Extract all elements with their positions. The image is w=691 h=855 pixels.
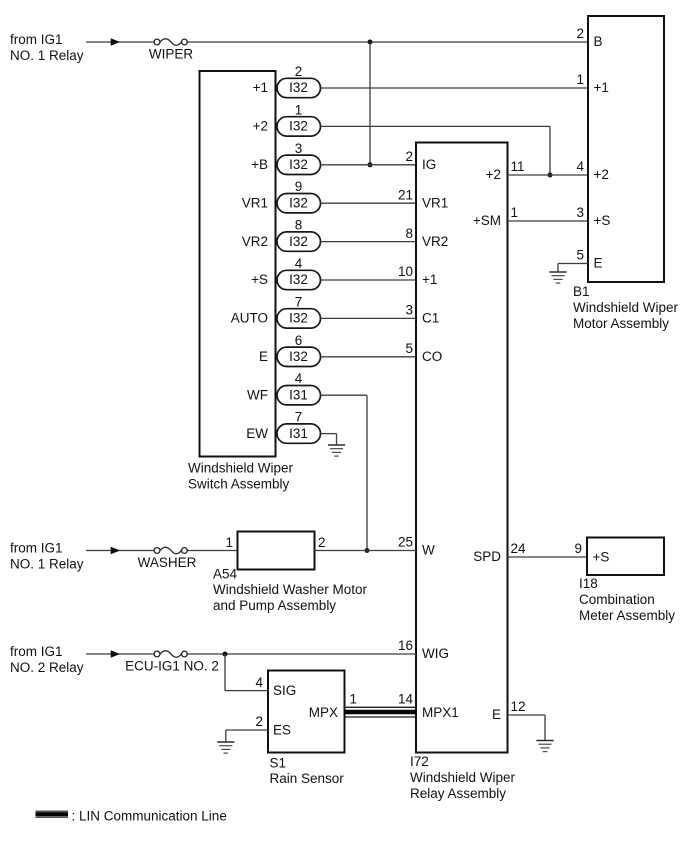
- wire E of B1 to ground: [558, 263, 588, 265]
- svg-text:2: 2: [255, 714, 263, 729]
- svg-text:CO: CO: [422, 349, 442, 364]
- svg-text:B: B: [594, 34, 603, 49]
- wire +S to +1: [321, 279, 417, 281]
- svg-text:Windshield Washer Motor: Windshield Washer Motor: [213, 582, 368, 597]
- svg-text:3: 3: [405, 303, 413, 318]
- svg-text:Windshield Wiper: Windshield Wiper: [573, 300, 679, 315]
- svg-text:Meter Assembly: Meter Assembly: [579, 608, 675, 623]
- fuse WIPER: [154, 39, 160, 45]
- fuse WASHER: [154, 548, 160, 554]
- svg-text:4: 4: [255, 675, 263, 690]
- svg-text:IG: IG: [422, 157, 436, 172]
- ground (I72 E): [536, 740, 553, 742]
- wire EW to ground: [321, 433, 337, 435]
- wire VR2: [321, 241, 417, 243]
- motor box: A54 Windshield Washer Motor and Pump Assembly: [238, 532, 315, 570]
- svg-text:WIPER: WIPER: [149, 47, 194, 62]
- svg-text:A54: A54: [213, 567, 238, 582]
- arrow feed 1: [111, 38, 120, 46]
- svg-text:Windshield Wiper: Windshield Wiper: [410, 770, 516, 785]
- svg-text:8: 8: [295, 218, 303, 233]
- svg-text:I32: I32: [289, 349, 308, 364]
- wire +2 net (switch +2 to +2 junction): [321, 125, 551, 127]
- svg-text:Rain Sensor: Rain Sensor: [270, 771, 345, 786]
- svg-text:MPX1: MPX1: [422, 705, 459, 720]
- arrow feed 3: [111, 650, 120, 658]
- svg-text:VR2: VR2: [422, 234, 448, 249]
- svg-text:ES: ES: [273, 723, 291, 738]
- wire: from IG1 NO.1 Relay to washer motor (W net): [86, 550, 154, 552]
- svg-text:7: 7: [295, 294, 303, 309]
- wire junction down to SIG: [224, 654, 226, 691]
- svg-text:24: 24: [511, 541, 527, 556]
- wire A54 pin2 to I72 W pin25: [315, 550, 417, 552]
- svg-text:+SM: +SM: [473, 213, 501, 228]
- svg-text:+S: +S: [251, 272, 268, 287]
- wire: from IG1 NO.2 Relay to WIG: [86, 653, 154, 655]
- motor box: B1 Windshield Wiper Motor Assembly: [588, 16, 664, 282]
- ECU box: I72 Windshield Wiper Relay Assembly: [416, 143, 508, 753]
- wire AUTO to C1: [321, 317, 417, 319]
- svg-text:NO. 2 Relay: NO. 2 Relay: [10, 660, 84, 675]
- svg-text:4: 4: [295, 371, 303, 386]
- svg-text:1: 1: [225, 535, 233, 550]
- ground (EW): [328, 444, 345, 446]
- svg-text:+1: +1: [422, 272, 437, 287]
- fuse ECU-IG1 NO.2: [154, 651, 160, 657]
- svg-text:2: 2: [405, 149, 413, 164]
- node: junction at +B wire: [368, 162, 373, 167]
- svg-text:2: 2: [295, 64, 303, 79]
- wire: fusible link from IG1 NO.1 Relay to net B: [86, 41, 154, 43]
- svg-text:Motor Assembly: Motor Assembly: [573, 316, 669, 331]
- wire +2 (I72 pin11 to motor pin4): [508, 174, 589, 176]
- svg-text:+2: +2: [253, 119, 268, 134]
- svg-text:NO. 1 Relay: NO. 1 Relay: [10, 48, 84, 63]
- svg-text:I32: I32: [289, 80, 308, 95]
- node junction on WIG net: [223, 652, 228, 657]
- svg-text:: LIN Communication Line: : LIN Communication Line: [72, 809, 227, 824]
- ground (B1 E): [549, 271, 566, 273]
- svg-text:WIG: WIG: [422, 646, 449, 661]
- svg-text:VR1: VR1: [242, 195, 268, 210]
- wire +B to IG: [321, 164, 417, 166]
- wire +SM to +S: [508, 220, 589, 222]
- svg-text:SIG: SIG: [273, 683, 296, 698]
- ground (S1 ES): [217, 741, 234, 743]
- svg-text:Switch Assembly: Switch Assembly: [188, 476, 290, 491]
- svg-text:NO. 1 Relay: NO. 1 Relay: [10, 557, 84, 572]
- wire +1 net (switch +1 to motor +1): [321, 87, 589, 89]
- svg-text:9: 9: [574, 541, 582, 556]
- svg-text:I32: I32: [289, 195, 308, 210]
- svg-text:+1: +1: [253, 80, 268, 95]
- svg-text:I32: I32: [289, 272, 308, 287]
- svg-text:S1: S1: [270, 756, 287, 771]
- svg-text:and Pump Assembly: and Pump Assembly: [213, 598, 336, 613]
- wire ES to ground: [226, 729, 268, 731]
- node junction on W net: [365, 548, 370, 553]
- svg-text:I32: I32: [289, 311, 308, 326]
- meter box: I18 Combination Meter Assembly: [587, 538, 664, 576]
- svg-text:from IG1: from IG1: [10, 32, 63, 47]
- wire VR1: [321, 202, 417, 204]
- connector box: Windshield Wiper Switch Assembly: [200, 71, 276, 457]
- wire E of I72 to ground: [508, 714, 546, 716]
- svg-text:16: 16: [398, 638, 413, 653]
- svg-text:I31: I31: [289, 387, 308, 402]
- svg-text:4: 4: [295, 256, 303, 271]
- svg-text:1: 1: [295, 102, 303, 117]
- svg-text:AUTO: AUTO: [231, 311, 268, 326]
- svg-text:2: 2: [576, 26, 584, 41]
- svg-text:9: 9: [295, 179, 303, 194]
- arrow feed 2: [111, 547, 120, 555]
- svg-text:+B: +B: [251, 157, 268, 172]
- wire SPD to combination meter: [508, 556, 588, 558]
- wire WF down to W net: [321, 394, 368, 396]
- svg-text:4: 4: [576, 159, 584, 174]
- svg-text:3: 3: [295, 141, 303, 156]
- svg-text:C1: C1: [422, 311, 439, 326]
- svg-text:Combination: Combination: [579, 592, 655, 607]
- sensor box: S1 Rain Sensor: [268, 671, 345, 753]
- svg-text:I31: I31: [289, 426, 308, 441]
- svg-text:WF: WF: [247, 387, 268, 402]
- svg-text:+S: +S: [593, 550, 610, 565]
- svg-text:7: 7: [295, 410, 303, 425]
- svg-text:1: 1: [511, 205, 519, 220]
- svg-text:11: 11: [511, 159, 525, 174]
- svg-text:2: 2: [318, 535, 326, 550]
- svg-text:5: 5: [405, 341, 413, 356]
- svg-text:+2: +2: [486, 167, 501, 182]
- wire: vertical from net B to +B/IG wire: [369, 42, 371, 165]
- svg-text:SPD: SPD: [473, 549, 501, 564]
- svg-text:12: 12: [511, 699, 526, 714]
- svg-text:W: W: [422, 543, 435, 558]
- LIN communication line MPX to MPX1: [345, 706, 417, 708]
- svg-text:E: E: [594, 256, 603, 271]
- svg-text:Relay Assembly: Relay Assembly: [410, 786, 506, 801]
- svg-text:MPX: MPX: [309, 705, 338, 720]
- svg-text:25: 25: [398, 535, 413, 550]
- svg-text:from IG1: from IG1: [10, 644, 63, 659]
- svg-text:3: 3: [576, 205, 584, 220]
- svg-text:I32: I32: [289, 234, 308, 249]
- svg-text:14: 14: [398, 692, 414, 707]
- svg-text:8: 8: [405, 226, 413, 241]
- svg-text:+1: +1: [594, 80, 609, 95]
- svg-text:B1: B1: [573, 284, 590, 299]
- svg-text:6: 6: [295, 333, 303, 348]
- legend: LIN communication line sample: [36, 810, 69, 812]
- svg-text:Windshield Wiper: Windshield Wiper: [188, 461, 294, 476]
- svg-text:+2: +2: [594, 167, 609, 182]
- svg-text:+S: +S: [594, 213, 611, 228]
- svg-text:from IG1: from IG1: [10, 541, 63, 556]
- svg-text:10: 10: [398, 264, 413, 279]
- svg-text:I32: I32: [289, 119, 308, 134]
- node: junction on net B at x370: [368, 40, 373, 45]
- svg-text:EW: EW: [246, 426, 268, 441]
- svg-text:E: E: [492, 707, 501, 722]
- svg-text:1: 1: [576, 72, 584, 87]
- svg-text:ECU-IG1 NO. 2: ECU-IG1 NO. 2: [125, 659, 219, 674]
- svg-text:E: E: [259, 349, 268, 364]
- svg-text:WASHER: WASHER: [138, 555, 197, 570]
- svg-text:21: 21: [398, 187, 413, 202]
- svg-text:I32: I32: [289, 157, 308, 172]
- svg-text:1: 1: [350, 692, 358, 707]
- node junction +2 net: [548, 173, 553, 178]
- wire E to CO: [321, 356, 417, 358]
- svg-text:I72: I72: [410, 754, 429, 769]
- svg-text:I18: I18: [579, 576, 598, 591]
- svg-text:VR2: VR2: [242, 234, 268, 249]
- svg-text:VR1: VR1: [422, 195, 448, 210]
- svg-text:5: 5: [576, 248, 584, 263]
